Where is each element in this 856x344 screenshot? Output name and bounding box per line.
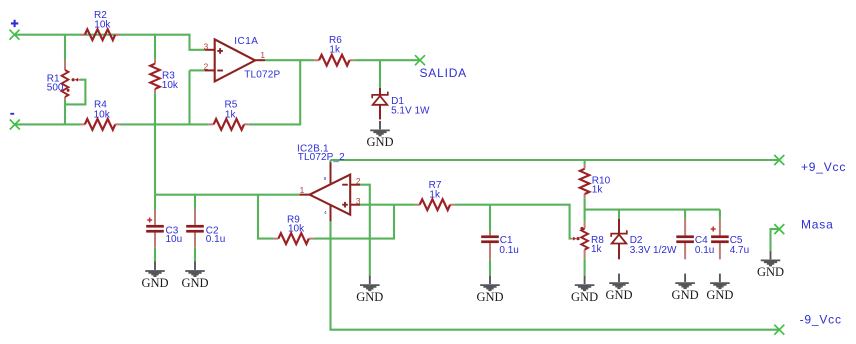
svg-text:4: 4 <box>324 210 327 216</box>
svg-text:3: 3 <box>204 41 209 51</box>
svg-text:2: 2 <box>356 176 361 186</box>
svg-text:1k: 1k <box>592 184 604 195</box>
svg-text:1k: 1k <box>591 244 603 255</box>
svg-text:SALIDA: SALIDA <box>420 66 468 80</box>
svg-text:1k: 1k <box>329 44 341 55</box>
svg-text:500: 500 <box>47 82 64 93</box>
svg-text:10k: 10k <box>162 80 179 91</box>
svg-text:TL072P_2: TL072P_2 <box>298 152 345 163</box>
svg-text:1k: 1k <box>429 189 441 200</box>
svg-text:8: 8 <box>324 176 327 182</box>
svg-text:3.3V 1/2W: 3.3V 1/2W <box>630 245 677 256</box>
svg-text:0.1u: 0.1u <box>695 245 714 256</box>
svg-text:3: 3 <box>356 196 361 206</box>
svg-text:10k: 10k <box>94 20 111 31</box>
svg-text:10k: 10k <box>288 224 305 235</box>
svg-text:0.1u: 0.1u <box>206 234 225 245</box>
svg-text:-9_Vcc: -9_Vcc <box>800 313 842 327</box>
svg-text:IC1A: IC1A <box>234 36 258 47</box>
svg-text:10k: 10k <box>94 109 111 120</box>
svg-text:1: 1 <box>260 50 265 60</box>
svg-text:2: 2 <box>204 62 209 72</box>
svg-text:1: 1 <box>300 185 305 195</box>
svg-text:Masa: Masa <box>801 218 834 232</box>
svg-text:0.1u: 0.1u <box>499 245 518 256</box>
svg-text:+9_Vcc: +9_Vcc <box>801 160 846 174</box>
svg-text:1k: 1k <box>225 109 237 120</box>
svg-text:10u: 10u <box>166 234 183 245</box>
svg-text:4.7u: 4.7u <box>730 245 749 256</box>
svg-text:TL072P: TL072P <box>244 69 280 80</box>
svg-text:5.1V 1W: 5.1V 1W <box>391 106 430 117</box>
